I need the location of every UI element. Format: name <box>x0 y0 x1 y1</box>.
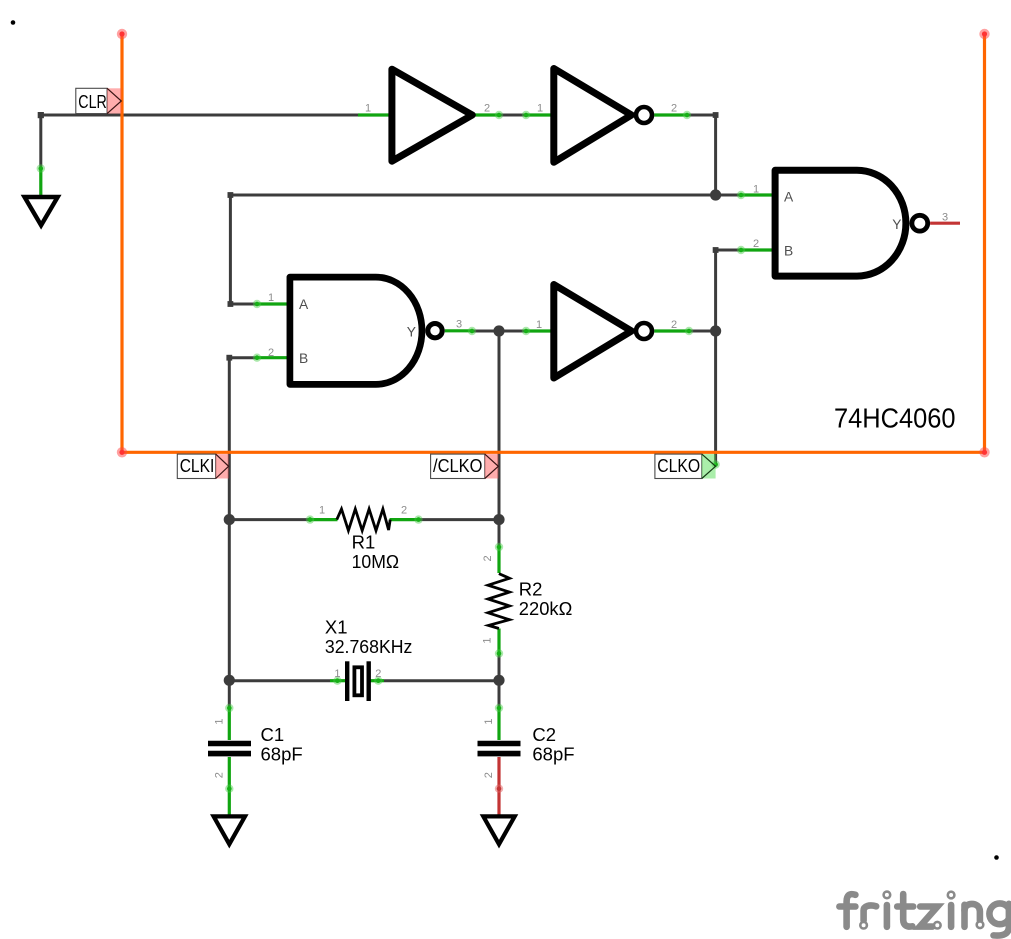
green pin2 mid inverter output <box>654 329 689 332</box>
svg-text:3: 3 <box>456 319 462 331</box>
glow inverter2 in <box>522 111 530 119</box>
ring n end <box>977 922 984 929</box>
svg-text:C2: C2 <box>532 724 556 745</box>
glow C1 pin1 <box>225 704 233 712</box>
svg-text:2: 2 <box>753 238 759 250</box>
ground symbol C2 <box>483 816 514 844</box>
frame endpoint dot top-left <box>117 29 127 39</box>
green pin1 R2 <box>497 629 500 654</box>
svg-text:220kΩ: 220kΩ <box>519 598 573 619</box>
svg-text:CLR: CLR <box>78 92 107 112</box>
wire R1 right <box>419 518 500 521</box>
svg-text:Y: Y <box>892 217 901 232</box>
wire /CLKO drop <box>498 331 501 520</box>
crystal X1 body rect <box>354 667 362 695</box>
capacitor C2 bottom plate <box>478 751 521 757</box>
bend dot inverter2 corner <box>713 112 719 118</box>
svg-text:32.768KHz: 32.768KHz <box>325 636 413 657</box>
svg-text:A: A <box>784 189 794 204</box>
green pin1 NAND1 A <box>741 193 775 196</box>
wire R2 bottom stub <box>498 654 501 681</box>
logo letter z <box>920 907 938 927</box>
logo letter i2 <box>948 905 955 927</box>
glow inverter2 out <box>683 111 691 119</box>
green pin1 inverter2 input <box>526 113 554 116</box>
svg-text:B: B <box>784 243 793 258</box>
svg-text:B: B <box>299 351 308 366</box>
glow NAND2 Y <box>468 327 476 335</box>
wire C2 top stub <box>498 680 501 708</box>
red wire C2 pin2 to ground <box>497 757 500 818</box>
green pin1 C2 <box>497 708 500 740</box>
logo letter t <box>903 894 912 927</box>
red wires <box>499 223 960 818</box>
svg-text:/CLKO: /CLKO <box>433 456 483 476</box>
junction node CLKO column <box>710 325 721 336</box>
bend dot mid NAND A corner <box>228 301 234 307</box>
ring i2 dot <box>948 892 955 899</box>
green pin1 C1 <box>228 708 231 740</box>
svg-text:1: 1 <box>365 103 371 115</box>
green net highlight wires <box>41 115 775 818</box>
wire mid NAND B stub <box>229 356 257 359</box>
bend dot mid NAND B corner <box>226 355 232 361</box>
svg-text:68pF: 68pF <box>532 743 574 764</box>
green pin1 X1 <box>330 679 346 682</box>
inverter U4 bubble <box>636 323 652 339</box>
glow R1 pin2 <box>414 515 422 523</box>
glow ground top-left <box>37 164 45 172</box>
svg-text:2: 2 <box>375 668 381 680</box>
NAND U5 body <box>775 170 906 276</box>
component value texts <box>261 532 575 765</box>
crystal X1 right plate <box>367 661 371 701</box>
green pin2 R1 <box>390 518 419 521</box>
wire node to NAND A <box>716 194 741 197</box>
logo letter f <box>847 894 856 927</box>
junction and bend dots <box>38 112 722 686</box>
svg-text:CLKI: CLKI <box>180 456 215 476</box>
wire R1 left <box>229 518 310 521</box>
net label /CLKO <box>431 454 499 478</box>
NAND U5 bubble <box>912 215 928 231</box>
wire NAND B stub <box>716 249 741 252</box>
green glow endpoint dots <box>37 111 746 793</box>
glow R2 pin2 <box>495 543 503 551</box>
svg-text:C1: C1 <box>261 724 285 745</box>
glow NAND1 A <box>737 191 745 199</box>
wire mid inverter out <box>689 330 716 333</box>
glow mid inverter out <box>685 327 693 335</box>
frame bus right vertical <box>983 34 986 452</box>
glow buffer out <box>495 111 503 119</box>
svg-text:2: 2 <box>671 319 677 331</box>
frame bus bottom horizontal <box>121 451 987 454</box>
bend dot feedback left <box>228 192 234 198</box>
green pin2 NAND1 B <box>741 248 775 251</box>
crystal X1 left plate <box>345 661 349 701</box>
wire ground drop left <box>39 115 42 168</box>
wire feedback drop to mid NAND A <box>229 195 232 304</box>
glow C2 pin2 red <box>495 785 503 793</box>
resistor R2 zigzag <box>488 574 510 629</box>
wire NAND B riser <box>714 250 717 331</box>
wire mid NAND out to node <box>472 330 499 333</box>
buffer U1 triangle <box>392 69 472 161</box>
green pin1 mid inverter input <box>526 329 554 332</box>
logo letter i1 <box>884 905 891 927</box>
svg-text:A: A <box>299 297 309 312</box>
junction crystal left <box>224 675 235 686</box>
junction R1 left <box>224 514 235 525</box>
wire CLKO drop <box>714 331 717 465</box>
wire C1 top stub <box>228 680 231 708</box>
ground symbol top-left <box>25 197 58 225</box>
glow R1 pin1 <box>306 515 314 523</box>
green pin1 R1 <box>310 518 338 521</box>
logo letter g <box>989 903 1010 924</box>
logo letter r <box>864 905 877 920</box>
net label CLR <box>76 88 122 113</box>
inverter U2 bubble <box>636 107 652 123</box>
ring r bottom <box>860 922 867 929</box>
fritzing logo <box>839 894 1010 936</box>
junction R1 right <box>493 514 504 525</box>
wire CLR horizontal <box>41 114 360 117</box>
svg-text:1: 1 <box>214 719 226 725</box>
ring i1 dot <box>884 892 891 899</box>
green pin3 NAND2 Y <box>445 329 472 332</box>
svg-text:2: 2 <box>483 772 495 778</box>
glow R2 pin1 <box>495 649 503 657</box>
capacitor C1 top plate <box>208 741 251 747</box>
green ground wire top-left <box>39 167 42 198</box>
svg-text:2: 2 <box>671 103 677 115</box>
glow NAND2 A <box>253 300 261 308</box>
wire left column to crystal <box>228 520 231 681</box>
svg-text:Y: Y <box>407 325 416 340</box>
capacitor C2 top plate <box>478 741 521 747</box>
wire node to mid inverter in <box>499 330 526 333</box>
pin letters <box>299 189 901 365</box>
wire crystal left <box>229 679 330 682</box>
wire crystal right <box>384 679 499 682</box>
svg-text:2: 2 <box>482 555 494 561</box>
glow X1 pin1 <box>333 677 341 685</box>
NAND U3 body <box>290 277 422 384</box>
glow CLKO pin <box>711 460 719 468</box>
wire long feedback horizontal <box>230 194 715 197</box>
green pin2 R2 <box>497 547 500 573</box>
svg-text:CLKO: CLKO <box>657 456 700 476</box>
logo letter n <box>961 905 968 927</box>
wire down to node <box>714 115 717 195</box>
glow NAND2 B <box>253 354 261 362</box>
wire inverter2 out <box>687 114 716 117</box>
wire buffer out to inverter in <box>499 114 526 117</box>
stray dot top-left <box>11 20 16 25</box>
svg-text:74HC4060: 74HC4060 <box>834 402 956 434</box>
green pin2 C1 to ground <box>228 757 231 818</box>
bend dot CLR left <box>38 112 44 118</box>
svg-text:X1: X1 <box>325 617 348 638</box>
logo rings <box>860 892 983 929</box>
junction node top right <box>710 189 721 200</box>
svg-text:1: 1 <box>334 668 340 680</box>
green pin2 X1 <box>370 679 385 682</box>
frame endpoint dot bottom-left <box>117 447 127 457</box>
frame endpoint dot top-right <box>979 29 989 39</box>
stray dot bottom-right <box>994 855 999 860</box>
ground symbol C1 <box>214 816 245 844</box>
inverter U4 triangle <box>554 285 632 379</box>
glow mid inverter in <box>522 327 530 335</box>
glow C1 pin2 <box>225 785 233 793</box>
svg-text:1: 1 <box>268 292 274 304</box>
green pin2 NAND2 B <box>257 356 290 359</box>
green pin2 inverter2 output <box>654 113 687 116</box>
frame bus left vertical <box>120 34 123 452</box>
glow X1 pin2 <box>374 677 382 685</box>
svg-text:2: 2 <box>268 347 274 359</box>
resistor R1 zigzag <box>337 509 390 531</box>
frame endpoint dot bottom-right <box>979 447 989 457</box>
glow C2 pin1 <box>495 704 503 712</box>
svg-text:3: 3 <box>942 212 948 224</box>
green pin1 NAND2 A <box>257 302 290 305</box>
wire mid NAND A stub <box>230 303 257 306</box>
svg-text:R2: R2 <box>519 578 543 599</box>
junction node mid <box>493 325 504 336</box>
NAND U3 bubble <box>428 324 442 338</box>
svg-text:1: 1 <box>483 719 495 725</box>
junction crystal right <box>493 675 504 686</box>
wire CLKI drop <box>228 358 231 520</box>
svg-text:1: 1 <box>319 505 325 517</box>
svg-text:2: 2 <box>214 772 226 778</box>
net label CLKI <box>177 454 228 478</box>
red wire NAND1 output pin 3 <box>930 222 960 225</box>
svg-text:R1: R1 <box>352 532 376 553</box>
capacitor C1 bottom plate <box>208 751 251 757</box>
bend dot NAND B corner <box>713 247 719 253</box>
svg-text:68pF: 68pF <box>261 743 303 764</box>
svg-text:2: 2 <box>484 103 490 115</box>
svg-text:10MΩ: 10MΩ <box>352 551 400 572</box>
glow NAND1 B <box>737 246 745 254</box>
svg-text:2: 2 <box>401 505 407 517</box>
net label CLKO <box>655 454 716 478</box>
green pin2 buffer output <box>475 113 500 116</box>
svg-text:1: 1 <box>537 103 543 115</box>
wire R2 top stub <box>498 520 501 547</box>
svg-text:1: 1 <box>753 184 759 196</box>
svg-text:1: 1 <box>536 319 542 331</box>
green pin1 buffer input <box>358 113 392 116</box>
ring z end <box>934 922 941 929</box>
inverter U2 triangle <box>554 69 632 163</box>
svg-text:1: 1 <box>481 637 493 643</box>
